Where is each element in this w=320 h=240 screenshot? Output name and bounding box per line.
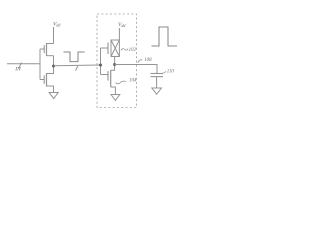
wire OUT to load: [115, 65, 157, 74]
wire CL to ground: [156, 77, 158, 88]
svg-text:102: 102: [129, 48, 137, 53]
wire inverter1 output to stage2 input: [54, 64, 101, 67]
transistor N2 (NMOS, right stage): [101, 65, 116, 95]
label 104 with leader: [116, 79, 137, 84]
transistor MB (crossed-box device): [101, 40, 120, 57]
node A (junction left inverter output): [52, 65, 55, 68]
label 108 with leader: [138, 58, 152, 63]
waveform output pulse annotation: [152, 27, 178, 46]
transistor P1 (PMOS, left inverter): [40, 43, 54, 56]
wire VDD lead to P1: [53, 27, 55, 44]
tick under wire: [76, 66, 78, 71]
wire gate connector (right stage): [100, 48, 102, 75]
node OUT junction: [113, 63, 116, 66]
wire gate connector (left inverter): [39, 49, 41, 80]
svg-text:110: 110: [167, 70, 175, 75]
svg-text:108: 108: [144, 58, 152, 63]
svg-text:104: 104: [129, 79, 137, 84]
wire P1 drain down: [53, 56, 55, 66]
svg-text:Vdd: Vdd: [53, 21, 61, 27]
ground (left inverter): [49, 93, 58, 99]
svg-text:Vdd: Vdd: [118, 22, 126, 28]
svg-text:IN: IN: [14, 67, 21, 73]
label IN with tick: [14, 63, 21, 73]
transistor N1 (NMOS, left inverter): [40, 66, 54, 92]
label VDD (right): [118, 22, 126, 28]
waveform low-pulse annotation: [64, 52, 85, 62]
capacitor CL: [151, 74, 164, 77]
ground (load): [152, 88, 162, 94]
wire VDD lead to MB: [118, 28, 120, 40]
wire MB drain down: [114, 57, 116, 65]
label 102 with leader: [121, 48, 137, 53]
ground (right stage): [111, 95, 120, 101]
label VDD (left): [53, 21, 61, 27]
label CL with leader: [162, 70, 174, 75]
node stage2 input junction: [99, 64, 102, 67]
wire IN input: [7, 63, 40, 65]
dashed enclosure box: [97, 14, 137, 108]
